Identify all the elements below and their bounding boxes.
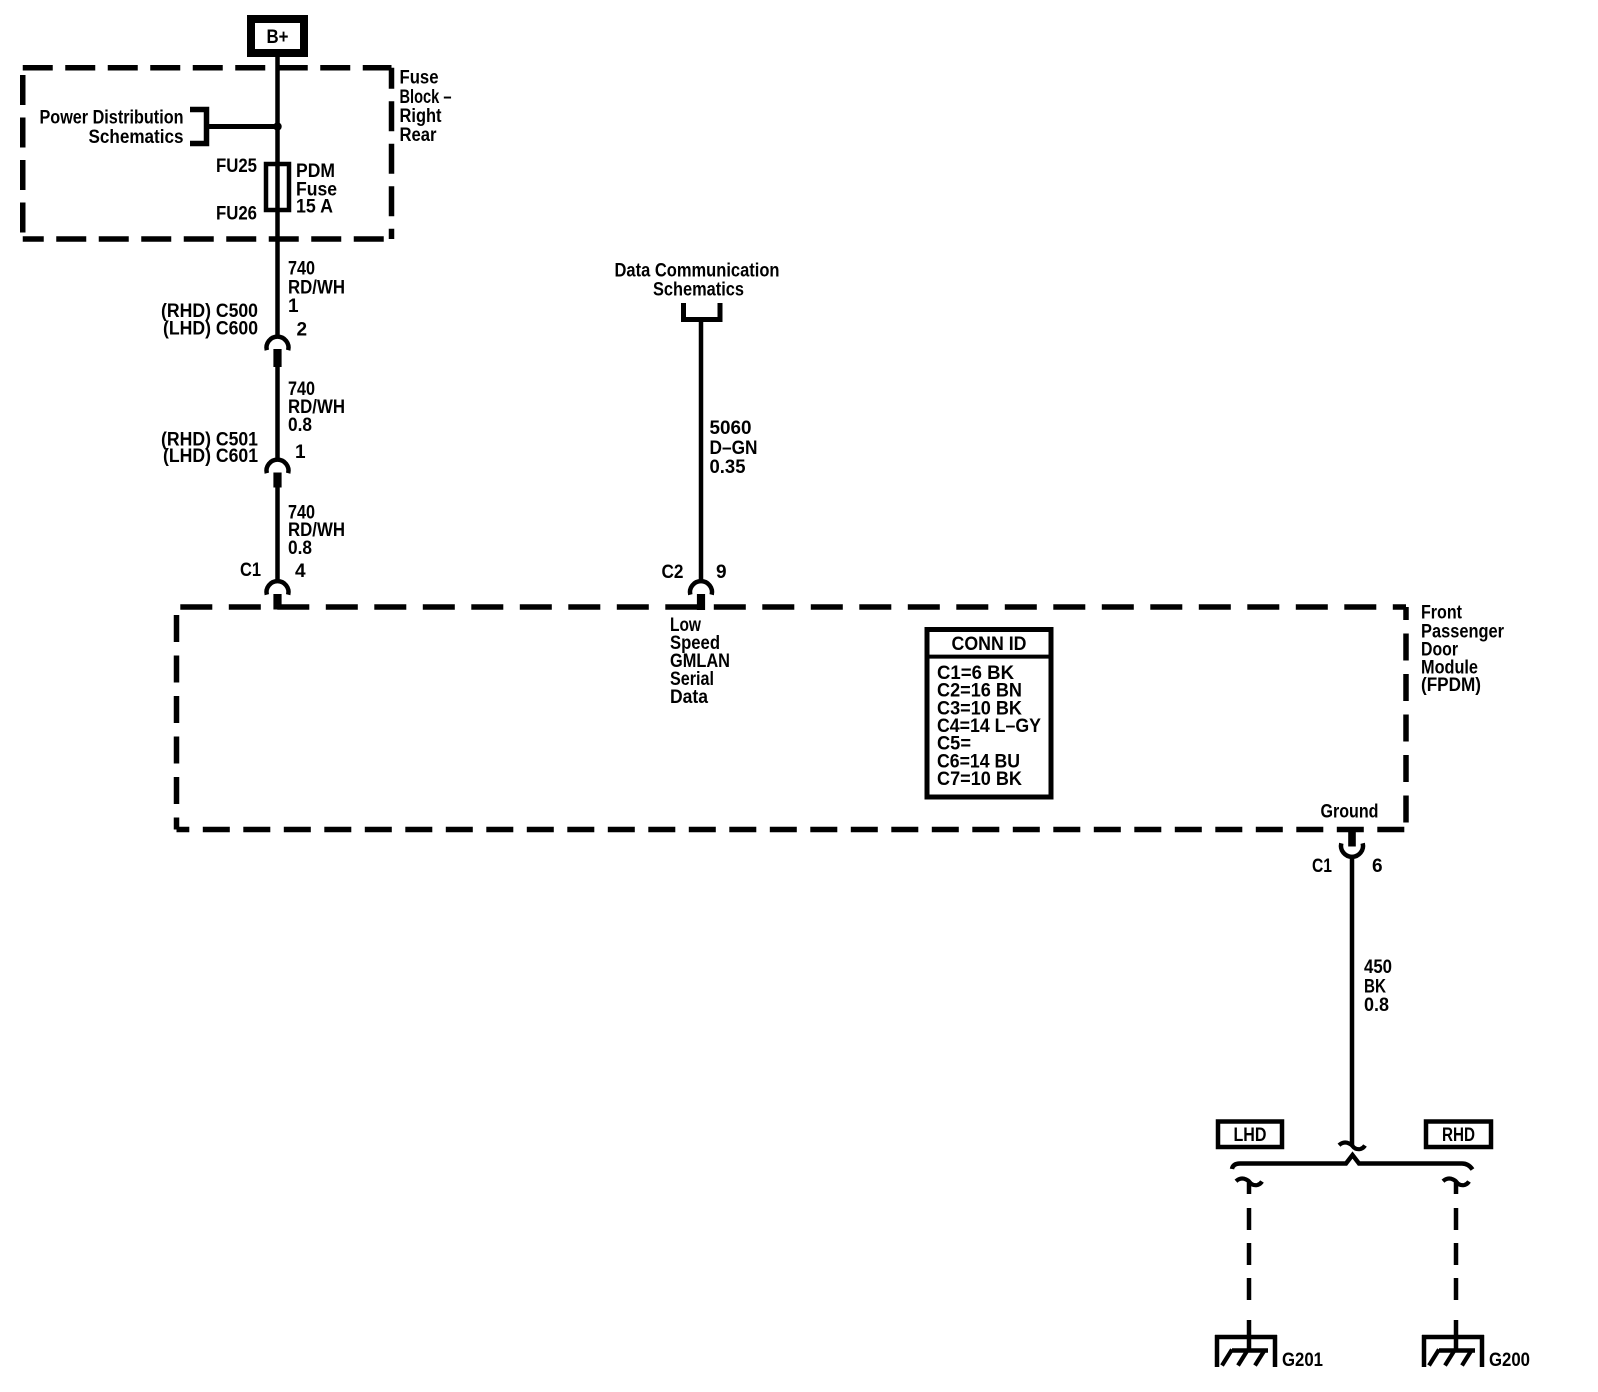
svg-text:C1: C1: [1312, 856, 1332, 877]
svg-text:Power Distribution: Power Distribution: [40, 108, 184, 129]
svg-text:0.8: 0.8: [1364, 995, 1389, 1016]
svg-text:C7=10 BK: C7=10 BK: [937, 769, 1022, 790]
svg-text:(LHD) C601: (LHD) C601: [163, 446, 258, 467]
svg-text:740: 740: [288, 259, 315, 280]
svg-text:CONN ID: CONN ID: [952, 634, 1027, 655]
svg-text:Data: Data: [670, 687, 708, 708]
svg-text:C1: C1: [240, 560, 261, 581]
svg-text:2: 2: [297, 320, 308, 341]
svg-text:Schematics: Schematics: [653, 280, 744, 301]
svg-text:RHD: RHD: [1442, 1125, 1475, 1146]
svg-text:450: 450: [1364, 957, 1392, 978]
svg-text:5060: 5060: [710, 418, 752, 439]
svg-text:15 A: 15 A: [296, 197, 333, 218]
svg-text:G200: G200: [1489, 1350, 1530, 1371]
svg-text:Data Communication: Data Communication: [615, 261, 780, 282]
svg-text:Fuse: Fuse: [400, 68, 439, 89]
svg-text:D–GN: D–GN: [710, 438, 758, 459]
svg-text:B+: B+: [267, 27, 289, 48]
svg-text:Right: Right: [400, 106, 443, 127]
svg-text:0.8: 0.8: [288, 415, 312, 436]
svg-text:Rear: Rear: [400, 125, 438, 146]
svg-text:Schematics: Schematics: [89, 127, 184, 148]
svg-text:G201: G201: [1282, 1350, 1323, 1371]
svg-text:0.8: 0.8: [288, 538, 312, 559]
svg-text:Block –: Block –: [400, 87, 452, 108]
svg-text:LHD: LHD: [1234, 1125, 1267, 1146]
svg-text:FU25: FU25: [216, 156, 257, 177]
svg-text:4: 4: [295, 561, 306, 582]
svg-text:Front: Front: [1421, 603, 1463, 624]
svg-text:Ground: Ground: [1321, 802, 1379, 823]
svg-text:(FPDM): (FPDM): [1421, 675, 1481, 696]
svg-text:C2: C2: [662, 562, 684, 583]
svg-text:FU26: FU26: [216, 204, 257, 225]
svg-text:1: 1: [295, 442, 306, 463]
svg-text:1: 1: [288, 296, 299, 317]
svg-text:(LHD) C600: (LHD) C600: [163, 319, 258, 340]
svg-text:9: 9: [716, 562, 727, 583]
svg-text:6: 6: [1372, 856, 1383, 877]
svg-text:0.35: 0.35: [710, 457, 746, 478]
